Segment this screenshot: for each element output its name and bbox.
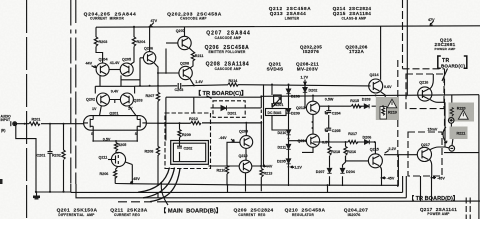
board boundary dashed vertical right x=398 xyxy=(397,60,399,190)
47V arrow left xyxy=(150,23,154,28)
resistor R215 (horizontal) xyxy=(351,105,361,108)
resistor R203 xyxy=(94,37,97,47)
wire: limiter output y=106 xyxy=(320,105,384,107)
bracket left of TR BOARD(C) xyxy=(438,56,441,68)
wire: Q206 top to rail xyxy=(149,27,151,52)
transistor Q215 xyxy=(368,154,382,168)
board boundary dashed vertical pair left: line B xyxy=(75,0,77,184)
TR BOARD(D) dashed enclosure around Q217 xyxy=(408,132,442,176)
wire: Q201 gate right to divider xyxy=(146,122,158,124)
resistor R213 xyxy=(260,169,263,178)
diode D203 (horizontal) xyxy=(364,104,369,108)
wire: R212 feed xyxy=(158,122,191,124)
wire: Q209 base left and R210 column xyxy=(227,142,240,185)
double dashed verticals bottom right xyxy=(466,198,470,220)
resistor R212 (horizontal) xyxy=(191,121,201,124)
minus terminal xyxy=(449,146,455,152)
transistor Q212 xyxy=(306,101,319,114)
transistor Q206 xyxy=(143,52,155,64)
wire: R202 column xyxy=(63,124,65,192)
resistor R221 xyxy=(451,128,454,137)
junction Q217 emitter -45V xyxy=(431,177,433,179)
grey patch R221 xyxy=(450,127,468,140)
capacitor C202 xyxy=(177,146,182,148)
capacitor C201 xyxy=(48,152,53,158)
bus: ground line 2 with left corner xyxy=(36,176,403,192)
wire: Q202/Q203 emitters to Q201 drains xyxy=(100,106,137,116)
wire: Q206 base stub xyxy=(140,57,143,59)
diode D210 xyxy=(286,130,290,135)
transistor Q208 xyxy=(179,66,192,79)
callout line from TR BOARD(C) label xyxy=(442,69,448,82)
wire: R204 column from rail to Q205 xyxy=(131,27,135,65)
bus: line 3 with left corner xyxy=(76,176,406,198)
wire: Q210 collector down to bus xyxy=(245,173,247,192)
diode D211 xyxy=(286,144,290,149)
solid box C202 inner xyxy=(173,143,205,161)
edge mark bottom-left xyxy=(0,179,3,184)
resistor R220 xyxy=(450,108,453,117)
diode D204 xyxy=(340,168,344,173)
-44V arrow at Q209 xyxy=(231,139,234,142)
capacitor C203 (series) xyxy=(178,83,181,89)
transistor Q205 xyxy=(120,63,133,76)
diode D207 xyxy=(327,168,331,173)
wire: D201 through wire xyxy=(211,107,262,109)
wire: Q210 emitter right junction and R213 xyxy=(252,121,261,191)
wire: C204/C205 column xyxy=(328,106,330,146)
-44V arrow mid (Q209 collector area) xyxy=(265,164,267,166)
bus: line 4 dashed then solid xyxy=(118,201,152,203)
-45V arrow mid-left xyxy=(130,181,133,184)
wire: Q211 top/bottom xyxy=(115,162,132,184)
wire: R203 column from rail to Q204 xyxy=(96,27,103,63)
wire: Q216 collector stub xyxy=(430,74,434,89)
board boundary dashed vertical pair left: line A xyxy=(70,0,72,184)
resistor R201 (horizontal) xyxy=(29,122,40,125)
trimmer TW201 arrow xyxy=(272,98,281,108)
callout line -2.2V to Q215 xyxy=(385,151,389,154)
wire: R219 drop xyxy=(382,106,384,107)
transistor Q214 xyxy=(369,79,383,93)
wire: TW201 column xyxy=(272,85,289,130)
wire: Q217 collector to minus terminal xyxy=(430,147,450,150)
bracket right of TR BOARD(C) xyxy=(464,56,467,68)
wire: TR board C feed line xyxy=(166,97,261,141)
44V arrow at Q204 xyxy=(92,65,97,67)
resistor R216 xyxy=(344,147,347,156)
wire: Q207 top to rail xyxy=(184,27,186,37)
warning triangle 2 xyxy=(458,110,468,119)
wire: Q211 source string xyxy=(93,130,137,153)
wire: Q211 gate stub xyxy=(108,159,111,161)
resistor R208 xyxy=(156,147,159,156)
transistor Q202 xyxy=(97,93,110,106)
grey patch R220 xyxy=(449,103,475,122)
FET Q211 xyxy=(111,152,125,166)
wire: Q204-Q205 link xyxy=(109,69,120,71)
wire: Q204 emitter drop xyxy=(99,75,101,86)
wire: Q212 emitter to Q213 xyxy=(312,114,314,134)
47V arrow right xyxy=(430,21,434,26)
dashed boundary segment x=261.3 xyxy=(260,110,262,121)
wire: limiter continue to R219 xyxy=(383,95,386,106)
diode D208 xyxy=(286,89,290,94)
wire: Q206 emitter to Q208 base xyxy=(154,49,179,74)
input connector pin xyxy=(14,123,16,125)
wire: class-B lower y=142 xyxy=(313,142,375,154)
DC BIAS box xyxy=(266,109,287,116)
callout line TR BOARD(C) to wire xyxy=(207,96,212,99)
resistor R217 (horizontal) xyxy=(348,140,358,143)
wire: Q217 emitter down xyxy=(429,159,431,176)
transistor Q207 xyxy=(178,36,191,49)
capacitor C205 xyxy=(325,128,331,131)
board boundary dashed vertical x=26.6 xyxy=(26,0,28,219)
wire: Q208 emitter down to y=85.5 junction xyxy=(190,78,194,85)
wire: R209 column drop xyxy=(179,123,181,161)
wire: Q217 base line y=154.3 xyxy=(384,154,417,156)
wire: mirror out to Q206 base xyxy=(121,58,140,86)
transistor Q217 xyxy=(417,147,431,161)
capacitor C204 xyxy=(325,111,331,114)
resistor R214 (horizontal) xyxy=(228,83,238,86)
trimmer TW201 box xyxy=(274,95,282,103)
board boundary dashed vertical x=402.5 top xyxy=(402,0,404,69)
bus sweep curve 1 into C202 box xyxy=(138,168,170,193)
callout curve MAIN BOARD(B) xyxy=(161,182,168,205)
wire: Q215 emitter down to -45V xyxy=(380,166,382,186)
resistor R207 xyxy=(156,92,159,101)
solid box C202 outer xyxy=(171,141,209,165)
feedback arc 15mV xyxy=(443,127,447,143)
wire: D204 column xyxy=(343,156,346,186)
wire: diode string column x=288.5 xyxy=(288,85,290,187)
wire: output line right of Q217 xyxy=(444,152,479,154)
wire: main horizontal y=85.6 to cascode xyxy=(135,85,371,87)
transistor Q216 xyxy=(418,87,432,101)
ground symbol xyxy=(33,196,40,200)
wire: mid rail to output xyxy=(261,95,479,97)
wire: Q209 collector up xyxy=(245,123,247,136)
wire: Q216 collector column x=407 xyxy=(406,0,408,95)
diode D209 xyxy=(286,109,290,114)
transistor Q209 xyxy=(240,136,253,149)
resistor R202 xyxy=(62,150,65,159)
resistor R210 xyxy=(225,166,228,175)
wire: Q213 emitter down xyxy=(302,147,313,152)
bus sweep curve 3 into C202 box xyxy=(150,168,180,201)
wire: Q214 emitter to mid rail junction xyxy=(381,92,386,95)
ground symbol stub xyxy=(36,192,38,196)
transistor Q213 xyxy=(306,134,319,147)
wire: R216 column xyxy=(346,142,369,161)
bus: -45V line xyxy=(115,155,398,186)
resistor R206 xyxy=(114,170,117,179)
diode D205 xyxy=(286,159,290,164)
transistor Q210 xyxy=(239,160,252,173)
diode D206 (horizontal) xyxy=(365,140,370,144)
wire: R218 column xyxy=(329,156,331,186)
wire: Q207 base stub xyxy=(166,42,178,44)
wire: Q212 collector to mid rail xyxy=(312,96,314,102)
diode D202 xyxy=(303,88,307,93)
wire: plus terminal column xyxy=(451,95,453,146)
input connector bracket xyxy=(10,121,12,126)
-1.2V arrow xyxy=(290,166,294,168)
diode D201 (horizontal) xyxy=(216,106,245,111)
wire: D202 column x=305 xyxy=(305,85,306,108)
transistor Q204 xyxy=(96,63,109,76)
wire: Q217 outputs below xyxy=(421,176,432,201)
-45V arrow at Q217 emitter xyxy=(433,177,437,179)
resistor R209 xyxy=(178,130,181,138)
wire: Q214 collector to top rail xyxy=(380,26,382,80)
dual FET Q201 xyxy=(84,116,147,131)
wire: right edge vertical output rail xyxy=(478,95,480,219)
TR BOARD(C) dashed enclosure around Q216 xyxy=(406,74,444,109)
wire: Q213 base from diode string xyxy=(289,140,307,142)
resistor R218 xyxy=(328,147,331,156)
wire: R212 to Q209 collector rail xyxy=(202,122,261,124)
bus: stub connections xyxy=(158,185,328,198)
-45V arrow at Q215 emitter xyxy=(382,177,386,179)
wire: Q207 emitter to Q208 via R211 xyxy=(189,48,193,69)
wire: top supply rail 47V xyxy=(96,26,480,27)
-44V arrow right of Q210 xyxy=(262,165,266,167)
wire: audio input line xyxy=(17,123,84,125)
wire: input connector drop to ground xyxy=(16,125,36,191)
grey patch R219 xyxy=(376,97,399,120)
dashed channel vertical x=444.5 xyxy=(444,69,446,131)
transistor Q203 xyxy=(120,93,133,106)
wire: bias divider column R207/R208 xyxy=(157,73,159,186)
resistor R204 xyxy=(132,37,135,47)
wire: Q210 base wire from regulator box xyxy=(208,165,239,167)
wire: Q209 emitter to Q210 xyxy=(245,149,247,161)
bus sweep curve 2 into C202 box xyxy=(143,168,175,198)
plus terminal xyxy=(448,118,454,124)
wire: cascode mid column x=263.5 xyxy=(263,84,265,166)
wire: mirror emitter bar y=86.3 xyxy=(95,86,134,93)
resistor R211 xyxy=(191,52,194,62)
wire: output column x=445 xyxy=(444,102,446,147)
wire: Q202/Q203 base bar xyxy=(110,100,121,104)
warning triangle 1 xyxy=(387,99,397,108)
resistor R205 xyxy=(114,143,117,152)
wire: Q216 emitter stub xyxy=(430,99,445,102)
wire: C201 column xyxy=(49,124,51,192)
dashed box around R209/R212/C202 xyxy=(165,113,211,169)
dashed box around D201 xyxy=(213,101,245,118)
wire: Q205 emitter drop xyxy=(120,75,122,86)
1.7V arrow xyxy=(304,80,307,85)
input connector circle xyxy=(13,122,17,126)
dashed channel horizontal y=69 xyxy=(403,68,445,70)
